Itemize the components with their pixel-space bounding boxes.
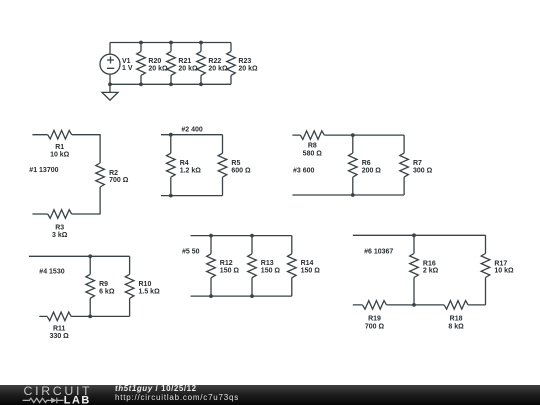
svg-text:LAB: LAB [64, 394, 91, 405]
